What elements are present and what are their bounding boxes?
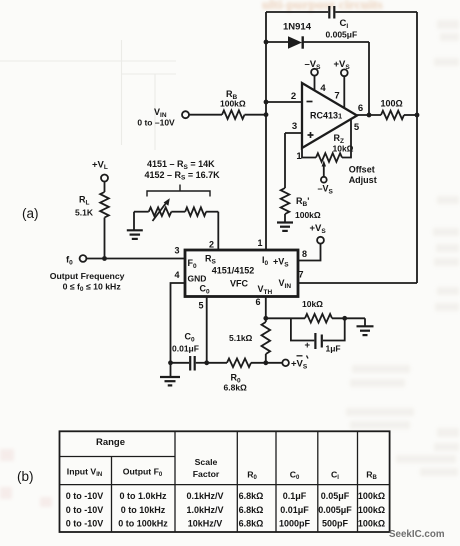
svg-text:10kHz/V: 10kHz/V (188, 519, 223, 529)
bleed-through heading top right (262, 0, 383, 13)
terminal f0 (80, 255, 87, 262)
bleed-through faint lines top left (0, 40, 176, 150)
wire op-amp output (357, 114, 381, 116)
bleed-through smudges right edge (346, 20, 459, 476)
svg-text:100kΩ: 100kΩ (295, 210, 321, 220)
capacitor CI (328, 6, 330, 19)
resistor R0 (227, 359, 251, 368)
svg-text:5.1K: 5.1K (75, 208, 94, 218)
diode 1N914 (288, 36, 302, 48)
junction 5.1k bottom (263, 360, 268, 365)
svg-text:0.01μF: 0.01μF (280, 505, 309, 515)
bracket RS (147, 191, 210, 197)
svg-text:Output F0: Output F0 (123, 467, 163, 479)
table data row 1 (66, 491, 385, 501)
svg-text:3: 3 (292, 121, 297, 132)
wire RB prime branch (284, 133, 286, 188)
svg-text:0 to 1.0kHz: 0 to 1.0kHz (119, 491, 167, 501)
svg-text:2: 2 (209, 240, 214, 250)
svg-text:6.8kΩ: 6.8kΩ (239, 519, 264, 529)
table column lines (111, 457, 113, 533)
svg-text:6: 6 (358, 103, 363, 114)
svg-text:Output Frequency: Output Frequency (50, 271, 125, 281)
junction 10k right (342, 316, 347, 321)
wire f0 to chip (87, 258, 186, 260)
svg-text:100kΩ: 100kΩ (358, 491, 385, 501)
resistor RS fixed (185, 207, 206, 216)
wire trimmer rail (134, 211, 149, 213)
wire R0 to +VS terminal (251, 362, 282, 364)
ground C0 (160, 376, 180, 378)
wire 1uF loop left (291, 318, 314, 340)
svg-text:1000pF: 1000pF (279, 519, 311, 529)
svg-text:7: 7 (334, 91, 339, 102)
svg-text:(a): (a) (22, 206, 39, 221)
wire C0 left (171, 362, 190, 364)
wire 10k rail (266, 317, 305, 319)
junction diode-left (264, 40, 269, 45)
wire non-inverting input (285, 132, 302, 134)
terminal VIN (182, 111, 189, 118)
terminal +VL (101, 175, 108, 182)
svg-text:1: 1 (257, 238, 262, 248)
resistor RB (222, 110, 245, 119)
resistor RL (100, 192, 109, 218)
wire pin4 GND down (171, 283, 186, 377)
offset adjust arrow (323, 166, 325, 177)
wire diode to output vertical (368, 42, 370, 115)
bleed-through smudges left edge (0, 449, 52, 507)
wire pin7 VIN of VFC (298, 282, 417, 284)
svg-text:5: 5 (198, 301, 203, 311)
resistor 100 ohm (381, 111, 404, 120)
wire pin6 vertical (265, 297, 267, 323)
table row lines (60, 456, 176, 458)
wire right vertical (416, 12, 418, 283)
svg-text:100kΩ: 100kΩ (220, 99, 246, 109)
svg-text:+: + (305, 340, 311, 351)
svg-text:1μF: 1μF (326, 344, 341, 354)
svg-text:0 to -10V: 0 to -10V (66, 519, 104, 529)
svg-text:0.005μF: 0.005μF (318, 505, 352, 515)
junction pin6 (263, 316, 268, 321)
junction f0-RL (102, 256, 107, 261)
svg-text:(b): (b) (17, 469, 34, 484)
svg-text:0.1μF: 0.1μF (283, 491, 307, 501)
svg-text:4: 4 (320, 83, 326, 94)
svg-text:10kΩ: 10kΩ (302, 299, 323, 309)
terminal +VS op-amp (343, 76, 345, 108)
ground trimmer (133, 212, 135, 230)
terminal offset -VS (321, 177, 327, 183)
wire left vertical node A (265, 12, 267, 250)
svg-text:2: 2 (291, 91, 296, 102)
svg-text:1N914: 1N914 (283, 22, 312, 33)
IC U2 4151/4152 VFC (185, 250, 298, 297)
terminal -VS op-amp (314, 76, 316, 91)
wire C0 to pin5 (196, 362, 207, 364)
junction pin5 (204, 360, 209, 365)
resistor RB prime (281, 188, 290, 214)
svg-text:Factor: Factor (193, 469, 220, 479)
terminal +VS chip (317, 237, 324, 244)
svg-text:0 to -10V: 0 to -10V (66, 491, 104, 501)
resistor 5.1k (262, 322, 271, 354)
table data row 2 (66, 505, 385, 515)
wire trimmer to pin2 (217, 212, 219, 250)
svg-text:4151/4152: 4151/4152 (212, 266, 255, 276)
table frame (60, 431, 390, 532)
junction jog top (264, 100, 269, 105)
svg-text:0 to 100kHz: 0 to 100kHz (118, 519, 168, 529)
trimmer arrow (153, 203, 167, 221)
svg-text:Range: Range (96, 437, 125, 448)
wire VIN to RB (189, 114, 222, 116)
svg-text:4: 4 (174, 270, 179, 280)
capacitor 1uF (314, 333, 316, 349)
svg-text:7: 7 (298, 269, 303, 279)
svg-text:100kΩ: 100kΩ (358, 519, 385, 529)
svg-text:GND: GND (188, 274, 207, 284)
wire VL to RL (104, 182, 106, 193)
svg-text:100kΩ: 100kΩ (358, 505, 385, 515)
svg-text:6.8kΩ: 6.8kΩ (239, 491, 264, 501)
table data row 3 (66, 519, 385, 529)
wire RB to node A (245, 114, 267, 116)
svg-text:Scale: Scale (195, 457, 218, 467)
svg-text:6.8kΩ: 6.8kΩ (239, 505, 264, 515)
svg-text:0.01μF: 0.01μF (172, 344, 199, 354)
svg-text:0 to –10V: 0 to –10V (137, 118, 175, 128)
capacitor C0 (189, 356, 191, 371)
svg-text:1.0kHz/V: 1.0kHz/V (186, 505, 223, 515)
wire pin5 vertical (206, 297, 208, 363)
svg-text:ulti-purpose circuits: ulti-purpose circuits (262, 0, 383, 13)
svg-text:RC4131: RC4131 (310, 111, 342, 121)
op-amp plus sign (308, 134, 314, 136)
ground RB prime (277, 221, 293, 223)
svg-text:8: 8 (302, 249, 307, 259)
svg-text:500pF: 500pF (322, 519, 349, 529)
wire inverting input jog (266, 101, 302, 103)
wire top feedback (266, 11, 328, 13)
wire 1uF loop right (323, 318, 345, 340)
svg-text:VFC: VFC (230, 279, 249, 289)
wire pin8 +VS (298, 244, 321, 261)
wire RZ to pin5 (342, 119, 351, 158)
resistor 10k (305, 314, 332, 323)
trimmer RS variable (149, 207, 172, 216)
wire pin1 to RZ (302, 148, 316, 158)
svg-text:100Ω: 100Ω (381, 99, 403, 109)
wire diode branch (266, 41, 289, 43)
svg-text:6: 6 (255, 297, 260, 307)
wire pin5 to R0 (207, 362, 227, 364)
svg-text:0 to -10V: 0 to -10V (66, 505, 104, 515)
junction right vertical (415, 113, 420, 118)
terminal +VS prime (282, 360, 289, 367)
svg-text:Adjust: Adjust (349, 175, 377, 185)
svg-text:Offset: Offset (349, 165, 375, 175)
svg-text:5.1kΩ: 5.1kΩ (229, 333, 253, 343)
svg-text:0.1kHz/V: 0.1kHz/V (186, 491, 223, 501)
op-amp minus sign (307, 101, 313, 103)
junction jog bottom (264, 112, 269, 117)
junction C0 rail left (168, 360, 173, 365)
wire 100 ohm to right vertical (404, 114, 417, 116)
svg-text:0 to 10kHz: 0 to 10kHz (121, 505, 166, 515)
ground 10k (357, 325, 374, 327)
wire RL to f0 node (104, 218, 106, 259)
svg-text:3: 3 (174, 246, 179, 256)
svg-text:0.05μF: 0.05μF (321, 491, 350, 501)
svg-text:0.005μF: 0.005μF (326, 30, 358, 40)
svg-text:6.8kΩ: 6.8kΩ (224, 383, 248, 393)
svg-text:SeekIC.com: SeekIC.com (389, 529, 445, 540)
resistor RZ (316, 153, 342, 162)
junction output-diode (367, 113, 372, 118)
op-amp U1 RC4131 (302, 83, 357, 148)
svg-text:5: 5 (354, 122, 360, 133)
